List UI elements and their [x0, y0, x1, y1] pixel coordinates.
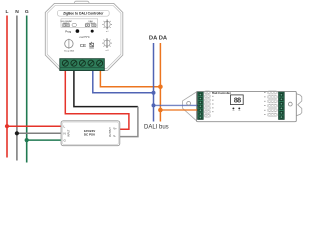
wire DA2 bus vertical (orange) — [159, 43, 161, 122]
svg-text:Group 5A/6: Group 5A/6 — [64, 50, 75, 53]
U1 relay box — [72, 24, 76, 27]
svg-text:DA DA: DA DA — [149, 36, 168, 42]
junction G — [25, 138, 29, 142]
svg-text:Prog: Prog — [65, 29, 71, 33]
TB1 screw 5 — [97, 60, 103, 66]
junction L — [5, 124, 9, 128]
U2 left ear hole — [187, 102, 191, 106]
wire DA1 from controller (blue) — [93, 71, 154, 93]
U1 trimmer knob 2 — [102, 38, 112, 48]
svg-text:G: G — [25, 9, 29, 15]
junction N — [15, 131, 19, 135]
TB1 screw 4 — [88, 60, 94, 66]
PSU PS1 inner outline — [63, 122, 119, 144]
svg-text:ZigBee to DALI Controller: ZigBee to DALI Controller — [63, 12, 104, 16]
wire DC- controller black segment — [74, 71, 138, 107]
U1 terminal block TB1 — [60, 59, 105, 71]
U1 ratings box — [61, 19, 98, 28]
U1 fixing screw — [68, 39, 70, 49]
svg-text:V-: V- — [113, 134, 116, 138]
U1 trimmer knob 1 — [102, 20, 112, 30]
U1 title plate — [57, 10, 109, 16]
svg-text:o-II: o-II — [106, 50, 109, 52]
U2 display — [231, 95, 244, 105]
svg-text:V+: V+ — [113, 127, 117, 131]
U1 housing top tab — [74, 1, 89, 6]
U2 left mounting ear — [183, 92, 197, 121]
wire DA1 into U2 (blue) — [154, 104, 199, 106]
junction DA2 lower — [158, 108, 163, 113]
wire G rail — [26, 16, 28, 163]
svg-text:DC PSU: DC PSU — [84, 133, 95, 137]
svg-text:• ta=75°C: • ta=75°C — [79, 36, 90, 39]
wire N tap to PSU — [17, 132, 62, 134]
U1 output terminal marks — [85, 24, 89, 27]
zigbee controller U1 inner outline — [47, 5, 121, 68]
wire G tap to PSU — [27, 139, 62, 141]
svg-text:88: 88 — [234, 98, 241, 106]
zigbee controller U1 outer housing — [45, 3, 123, 70]
U2 right terminal block — [279, 92, 285, 119]
U2 right screw hole — [288, 102, 292, 106]
svg-text:DALI bus: DALI bus — [144, 125, 169, 131]
svg-text:Dali Controller: Dali Controller — [212, 91, 231, 95]
svg-text:CE: CE — [80, 43, 86, 48]
wire DA2 into U2 (orange) — [160, 109, 198, 111]
junction DA1 lower — [152, 103, 156, 107]
U2 right pin tick labels — [264, 92, 266, 115]
junction DA1 upper — [152, 91, 156, 95]
U1 indicator dot — [91, 30, 94, 33]
U2 left pin tick labels — [212, 92, 214, 112]
TB1 screw 3 — [79, 60, 85, 66]
TB1 screw 1 — [62, 60, 68, 66]
U2 left wire-entry holes — [204, 91, 210, 117]
svg-text:INPUT: INPUT — [68, 129, 71, 137]
wire N rail — [16, 16, 18, 161]
svg-text:OUTPUT: OUTPUT — [109, 127, 112, 137]
wire L rail — [6, 16, 8, 158]
wire DC- gray segment to PSU V- — [120, 107, 138, 137]
U1 prog button — [76, 29, 80, 33]
PSU PS1 body — [61, 121, 120, 146]
wire DA2 from controller (orange) — [100, 71, 160, 87]
U2 right mounting ear — [296, 94, 302, 116]
wire DC+ controller to PSU V+ (red) — [65, 71, 129, 130]
svg-text:N: N — [15, 9, 19, 15]
U2 right wire-entry holes — [267, 91, 277, 116]
U1 input terminal marks — [63, 24, 66, 27]
svg-text:N: N — [64, 132, 66, 136]
U2 left terminal block — [198, 92, 204, 119]
wire DA1 bus vertical (blue) — [153, 43, 155, 122]
U2 body — [197, 91, 297, 121]
svg-text:L: L — [6, 9, 9, 15]
TB1 screw 2 — [71, 60, 77, 66]
U2 display buttons — [232, 107, 234, 109]
U1 WEEE mark — [89, 42, 94, 48]
junction DA2 upper — [158, 85, 163, 90]
wire L tap to PSU — [7, 125, 62, 127]
